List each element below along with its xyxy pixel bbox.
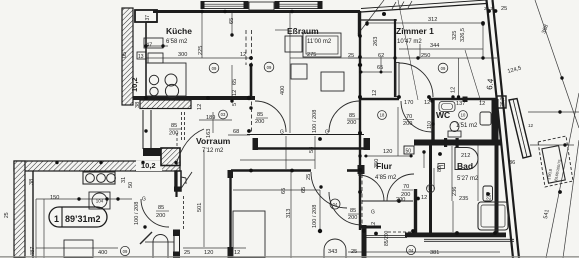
svg-text:09: 09 <box>441 66 446 71</box>
svg-text:65: 65 <box>301 187 307 193</box>
svg-text:100 / 208: 100 / 208 <box>312 110 318 133</box>
svg-text:235: 235 <box>459 196 468 202</box>
svg-text:200: 200 <box>255 119 264 125</box>
svg-text:10,2: 10,2 <box>130 77 139 92</box>
svg-text:65: 65 <box>281 188 287 194</box>
svg-text:Zimmer 1: Zimmer 1 <box>396 26 434 36</box>
svg-text:170: 170 <box>404 100 413 106</box>
svg-text:70: 70 <box>406 114 412 120</box>
svg-text:313: 313 <box>286 209 292 218</box>
svg-text:26,3: 26,3 <box>500 97 506 107</box>
svg-text:6’58 m2: 6’58 m2 <box>166 39 188 45</box>
svg-text:50: 50 <box>406 149 412 155</box>
svg-text:326,5: 326,5 <box>460 28 466 42</box>
svg-text:04: 04 <box>409 248 414 253</box>
svg-text:12: 12 <box>421 195 427 201</box>
svg-text:09: 09 <box>212 66 217 71</box>
svg-text:12: 12 <box>451 87 457 93</box>
svg-text:WC: WC <box>436 110 450 120</box>
svg-text:18: 18 <box>380 113 385 118</box>
svg-text:200: 200 <box>347 120 356 126</box>
svg-text:501: 501 <box>197 203 203 212</box>
svg-text:12: 12 <box>528 123 534 128</box>
svg-text:1’51 m2: 1’51 m2 <box>456 123 478 129</box>
svg-text:10,2: 10,2 <box>141 161 156 170</box>
svg-text:200: 200 <box>156 213 165 219</box>
svg-text:58: 58 <box>309 147 315 153</box>
svg-text:09: 09 <box>123 249 128 254</box>
svg-text:Bad: Bad <box>457 161 473 171</box>
svg-text:4’85 m2: 4’85 m2 <box>375 175 397 181</box>
svg-text:12: 12 <box>234 250 240 256</box>
svg-text:12: 12 <box>240 52 246 58</box>
svg-text:G: G <box>325 130 329 136</box>
svg-text:236: 236 <box>452 187 458 196</box>
svg-text:85: 85 <box>158 205 164 211</box>
svg-text:G: G <box>280 130 284 136</box>
svg-text:70: 70 <box>403 184 409 190</box>
svg-text:25: 25 <box>351 249 357 255</box>
svg-text:200: 200 <box>169 131 178 137</box>
svg-text:85/200: 85/200 <box>384 230 390 246</box>
svg-text:400: 400 <box>98 250 107 256</box>
svg-text:381: 381 <box>430 250 439 256</box>
svg-text:110: 110 <box>427 121 433 129</box>
svg-text:100 / 208: 100 / 208 <box>312 205 318 228</box>
svg-text:12: 12 <box>424 100 430 106</box>
svg-text:12: 12 <box>197 104 203 110</box>
svg-text:05: 05 <box>122 52 128 58</box>
svg-text:89’31m2: 89’31m2 <box>65 214 101 224</box>
svg-text:G: G <box>371 210 375 216</box>
svg-text:G: G <box>142 197 146 203</box>
svg-text:237: 237 <box>487 191 493 200</box>
svg-text:6.4: 6.4 <box>485 78 495 91</box>
svg-text:250: 250 <box>421 53 430 59</box>
svg-text:7’12 m2: 7’12 m2 <box>202 148 224 154</box>
svg-text:65: 65 <box>232 79 238 85</box>
svg-text:212: 212 <box>461 153 470 159</box>
svg-text:350: 350 <box>374 159 380 168</box>
svg-text:47: 47 <box>146 43 152 49</box>
svg-text:09: 09 <box>267 65 272 70</box>
svg-text:275: 275 <box>307 52 316 58</box>
svg-text:80: 80 <box>437 166 443 172</box>
svg-text:163: 163 <box>206 129 212 138</box>
svg-text:03: 03 <box>221 112 226 117</box>
svg-text:31: 31 <box>121 177 127 183</box>
svg-text:200: 200 <box>348 215 357 221</box>
svg-text:104: 104 <box>96 199 104 204</box>
svg-text:65: 65 <box>377 65 383 71</box>
svg-text:263: 263 <box>373 37 379 46</box>
svg-text:325: 325 <box>452 31 458 40</box>
svg-text:200: 200 <box>403 121 412 127</box>
svg-text:25: 25 <box>348 53 354 59</box>
svg-text:12: 12 <box>232 90 238 96</box>
svg-text:Küche: Küche <box>166 26 192 36</box>
svg-text:25: 25 <box>501 6 507 12</box>
svg-text:85: 85 <box>349 113 355 119</box>
svg-text:36: 36 <box>509 160 515 166</box>
svg-text:12: 12 <box>371 222 377 228</box>
svg-text:12: 12 <box>479 101 485 107</box>
svg-text:65: 65 <box>229 18 235 24</box>
svg-text:400: 400 <box>280 86 286 95</box>
svg-text:344: 344 <box>430 43 439 49</box>
svg-text:5: 5 <box>232 103 238 106</box>
svg-text:137: 137 <box>456 101 465 107</box>
svg-text:10: 10 <box>461 113 466 118</box>
svg-text:12: 12 <box>372 90 378 96</box>
svg-text:1: 1 <box>54 214 59 224</box>
svg-text:25: 25 <box>306 174 312 180</box>
svg-text:62: 62 <box>378 53 384 59</box>
svg-text:85: 85 <box>257 112 263 118</box>
svg-text:189: 189 <box>206 115 215 121</box>
svg-text:225: 225 <box>198 46 204 55</box>
svg-text:13: 13 <box>138 54 144 60</box>
svg-text:10’47 m2: 10’47 m2 <box>397 39 422 45</box>
svg-text:37: 37 <box>145 15 151 21</box>
svg-text:343: 343 <box>328 249 337 255</box>
svg-text:5’27 m2: 5’27 m2 <box>457 176 479 182</box>
svg-text:04: 04 <box>333 202 338 207</box>
svg-text:100 / 208: 100 / 208 <box>134 202 140 225</box>
svg-text:50: 50 <box>128 182 134 188</box>
svg-text:38: 38 <box>29 179 35 185</box>
svg-text:150: 150 <box>50 195 59 201</box>
svg-text:120: 120 <box>383 149 392 155</box>
svg-text:300: 300 <box>178 52 187 58</box>
svg-text:08: 08 <box>428 186 433 191</box>
svg-text:26,2: 26,2 <box>484 6 493 11</box>
svg-text:85: 85 <box>171 123 177 129</box>
svg-text:38: 38 <box>135 102 141 108</box>
svg-text:68: 68 <box>233 129 239 135</box>
svg-text:Eßraum: Eßraum <box>287 26 319 36</box>
svg-text:Vorraum: Vorraum <box>196 136 231 146</box>
svg-text:120: 120 <box>204 250 213 256</box>
svg-text:487: 487 <box>30 247 36 256</box>
svg-text:25: 25 <box>4 212 10 218</box>
svg-text:85: 85 <box>350 208 356 214</box>
svg-text:25: 25 <box>184 250 190 256</box>
svg-text:200: 200 <box>396 197 405 203</box>
svg-text:312: 312 <box>428 17 437 23</box>
svg-text:11’00 m2: 11’00 m2 <box>307 39 332 45</box>
